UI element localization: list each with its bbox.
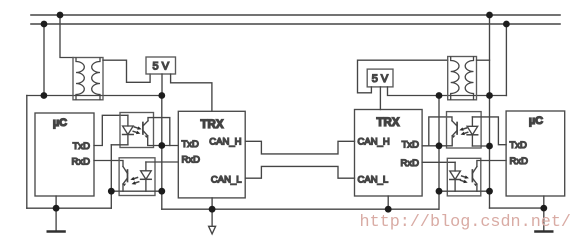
transformer T1 secondary winding [92, 58, 100, 100]
svg-text:RxD: RxD [182, 155, 201, 166]
svg-text:RxD: RxD [72, 156, 91, 167]
wire Q1 emitter to TRX1 TxD pin [148, 136, 179, 146]
transformer T2 secondary winding [465, 57, 473, 100]
power rail top (V+) [31, 14, 560, 16]
wire rail2 right drop [505, 24, 507, 96]
wire left TRX ground rail x=161.8 [161, 96, 163, 210]
wire TRX1 RxD to O2 LED anode [146, 161, 178, 163]
opto O4 LED [454, 162, 456, 171]
opto O2 LED [145, 162, 147, 171]
opto O2 phototransistor Q2 [127, 170, 129, 182]
transformer T2 box [448, 57, 477, 100]
wire TRX side ground line [162, 208, 439, 210]
wire TRX2 ground pin [387, 196, 389, 209]
optocoupler O2 box [119, 158, 155, 196]
wire O1 LED cathode to ground rail [111, 144, 128, 146]
opto O3 LED [471, 117, 473, 126]
wire O3 LED cathode to rail [472, 145, 489, 147]
wire rail1 right drop full [489, 15, 491, 208]
wire T2 top tap [477, 59, 490, 61]
ground symbol left uC [55, 208, 57, 231]
microcontroller U1 box [35, 113, 94, 196]
wire 5V left output to TRX1 VCC [171, 74, 212, 111]
wire left outer ground drop [26, 96, 28, 209]
wire Q1 collector to TxD net [148, 118, 170, 146]
wire U2 TxD to O3 LED anode [472, 117, 506, 145]
wire Q3 emitter to TxD dot [439, 136, 452, 146]
wire Q4 collector to U2 RxD [477, 161, 506, 167]
svg-text:TxD: TxD [182, 139, 200, 150]
earth arrow symbol [211, 209, 213, 226]
transformer T1 primary winding [76, 58, 84, 100]
svg-text:µC: µC [53, 117, 67, 129]
svg-text:TxD: TxD [402, 139, 420, 150]
opto O1 phototransistor Q1 [142, 123, 144, 135]
svg-text:RxD: RxD [510, 156, 529, 167]
opto O3 phototransistor Q3 [456, 123, 458, 135]
ground symbol right uC [543, 208, 545, 231]
wire left uC ground bottom [27, 207, 112, 209]
wire Q2 emitter to ground rail [122, 184, 124, 191]
transformer T1 box [73, 58, 103, 100]
svg-text:http://blog.csdn.net/: http://blog.csdn.net/ [360, 213, 571, 232]
wire right isolated ground link [439, 190, 490, 192]
CAN transceiver TRX1 box [178, 111, 245, 198]
svg-text:RxD: RxD [401, 158, 420, 169]
svg-text:CAN_L: CAN_L [211, 175, 242, 186]
wire rail2 to left common line [43, 24, 45, 96]
wire TxD rail drop x=439 [438, 96, 440, 210]
optocoupler O3 box [447, 112, 482, 148]
opto O1 light arrows [134, 127, 137, 128]
opto O1 LED [127, 115, 129, 126]
svg-text:TRX: TRX [201, 119, 224, 131]
wire transformer secondary top to 5V box [103, 60, 150, 82]
optocoupler O4 box [447, 158, 481, 196]
opto O4 light arrows [462, 176, 465, 177]
CAN transceiver TRX2 box [355, 110, 423, 197]
opto O2 light arrows [134, 178, 137, 179]
wire TRX1 ground pin [211, 198, 213, 209]
svg-text:µC: µC [529, 115, 543, 127]
svg-text:5 V: 5 V [372, 73, 389, 85]
voltage regulator 5V right box [367, 69, 393, 87]
wire CAN_L bus [245, 166, 354, 178]
wire Q4 emitter to ground rail [476, 184, 478, 191]
wire U1 ground pin [55, 196, 57, 208]
svg-text:TRX: TRX [377, 117, 400, 129]
wire TRX2 RxD to opto O4 LED [422, 161, 455, 163]
wire U1 RxD to opto O2 collector [94, 161, 123, 167]
wire left ground rail riser x=111.3 [110, 145, 112, 208]
power rail bottom (V-) [31, 23, 560, 25]
wire 5V right output to TRX2 VCC [379, 87, 381, 110]
wire CAN_H bus [245, 141, 354, 154]
transformer T2 primary winding [451, 57, 459, 100]
svg-text:TxD: TxD [510, 140, 528, 151]
opto O4 phototransistor Q4 [471, 170, 473, 182]
wire U1 TxD to opto O1 LED anode [94, 115, 128, 145]
wire TRX2 TxD to opto O3 [422, 145, 439, 147]
microcontroller U2 box [506, 111, 565, 196]
wire 5V right mid pin to right common line [388, 87, 507, 96]
opto O3 light arrows [463, 128, 466, 129]
wire 5V left mid pin to common line [161, 74, 163, 96]
svg-text:TxD: TxD [73, 141, 91, 152]
optocoupler O1 box [120, 113, 154, 148]
svg-text:CAN_L: CAN_L [358, 175, 389, 186]
wire left common line y=95.5 [27, 95, 162, 97]
wire O3 collector branch [429, 117, 452, 146]
voltage regulator 5V left box [146, 57, 176, 74]
svg-text:5 V: 5 V [153, 61, 170, 73]
svg-text:CAN_H: CAN_H [209, 137, 241, 148]
wire rail1 to left transformer primary top [60, 15, 73, 58]
wire right uC ground bottom [490, 207, 544, 209]
wire 5V right input from transformer T2 [358, 60, 448, 93]
wire left isolated ground link [111, 190, 162, 192]
wire U2 ground pin [543, 196, 545, 208]
svg-text:CAN_H: CAN_H [358, 137, 390, 148]
